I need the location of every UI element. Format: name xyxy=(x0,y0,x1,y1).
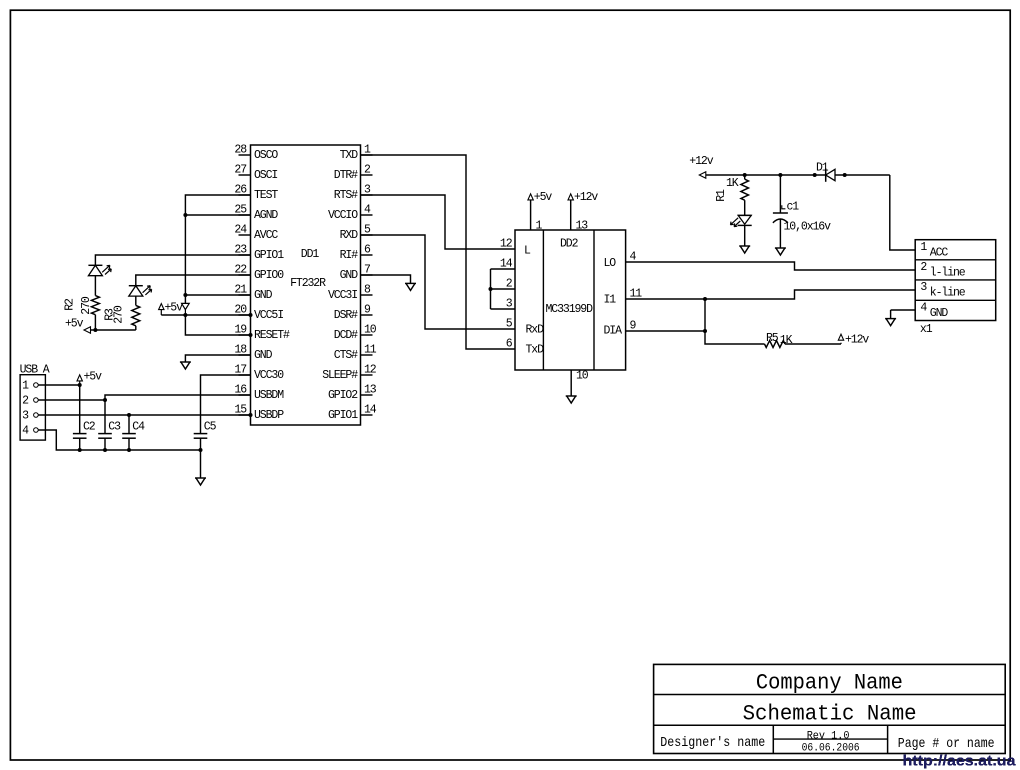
svg-text:DD1: DD1 xyxy=(301,248,320,261)
svg-text:GPIO1: GPIO1 xyxy=(254,249,284,262)
svg-text:13: 13 xyxy=(364,384,377,397)
svg-text:TEST: TEST xyxy=(254,189,278,202)
svg-text:RTS#: RTS# xyxy=(334,189,358,202)
svg-text:+5v: +5v xyxy=(65,317,84,330)
svg-text:10,0x16v: 10,0x16v xyxy=(784,221,832,234)
svg-text:GND: GND xyxy=(340,269,359,282)
svg-text:13: 13 xyxy=(576,220,589,233)
svg-text:12: 12 xyxy=(364,364,377,377)
svg-text:AVCC: AVCC xyxy=(254,229,278,242)
svg-text:c1: c1 xyxy=(787,201,800,214)
svg-text:Designer's name: Designer's name xyxy=(660,735,765,751)
svg-text:RxD: RxD xyxy=(526,323,545,336)
svg-text:x1: x1 xyxy=(920,323,933,336)
svg-text:10: 10 xyxy=(364,324,377,337)
svg-text:27: 27 xyxy=(234,164,246,177)
svg-text:VCC5I: VCC5I xyxy=(254,309,283,322)
svg-text:VCC30: VCC30 xyxy=(254,369,284,382)
svg-text:AGND: AGND xyxy=(254,209,278,222)
svg-text:R5: R5 xyxy=(766,332,779,345)
svg-text:DTR#: DTR# xyxy=(334,169,358,182)
svg-text:FT232R: FT232R xyxy=(290,277,326,290)
svg-text:+5v: +5v xyxy=(84,371,103,384)
svg-text:Company Name: Company Name xyxy=(756,670,903,696)
svg-text:USB A: USB A xyxy=(20,363,50,376)
svg-text:GPIO2: GPIO2 xyxy=(328,389,358,402)
svg-text:R1: R1 xyxy=(715,189,728,202)
svg-text:C4: C4 xyxy=(132,421,145,434)
svg-text:+12v: +12v xyxy=(574,191,598,204)
svg-text:270: 270 xyxy=(80,296,93,315)
svg-text:RI#: RI# xyxy=(340,249,359,262)
svg-text:+5v: +5v xyxy=(165,302,184,315)
svg-text:VCC3I: VCC3I xyxy=(328,289,357,302)
svg-text:TXD: TXD xyxy=(340,149,359,162)
svg-text:C3: C3 xyxy=(108,421,121,434)
svg-text:DIA: DIA xyxy=(604,325,623,338)
svg-text:USBDM: USBDM xyxy=(254,389,284,402)
svg-text:06.06.2006: 06.06.2006 xyxy=(802,742,860,754)
svg-text:GND: GND xyxy=(254,289,273,302)
svg-text:Page # or name: Page # or name xyxy=(898,736,995,752)
svg-text:12: 12 xyxy=(500,238,513,251)
svg-text:MC33199D: MC33199D xyxy=(545,303,593,316)
svg-text:l-line: l-line xyxy=(930,266,966,279)
svg-text:10: 10 xyxy=(576,370,589,383)
svg-text:11: 11 xyxy=(364,344,377,357)
svg-text:C5: C5 xyxy=(204,421,217,434)
svg-text:DD2: DD2 xyxy=(560,237,579,250)
svg-text:GND: GND xyxy=(930,307,949,320)
svg-text:Schematic Name: Schematic Name xyxy=(743,701,917,727)
svg-text:Rev 1.0: Rev 1.0 xyxy=(807,730,850,742)
svg-text:DCD#: DCD# xyxy=(334,329,358,342)
svg-text:k-line: k-line xyxy=(930,287,966,300)
svg-text:SLEEP#: SLEEP# xyxy=(322,369,358,382)
svg-text:1K: 1K xyxy=(780,334,793,347)
svg-text:24: 24 xyxy=(234,224,247,237)
svg-text:DSR#: DSR# xyxy=(334,309,358,322)
svg-text:GPIO0: GPIO0 xyxy=(254,269,284,282)
svg-text:LO: LO xyxy=(604,257,617,270)
svg-text:GND: GND xyxy=(254,349,273,362)
svg-text:http://aes.at.ua: http://aes.at.ua xyxy=(903,753,1017,770)
svg-text:TxD: TxD xyxy=(526,343,545,356)
svg-text:28: 28 xyxy=(234,144,247,157)
svg-text:ACC: ACC xyxy=(930,246,949,259)
svg-text:RXD: RXD xyxy=(340,229,359,242)
svg-text:+12v: +12v xyxy=(689,155,713,168)
svg-text:270: 270 xyxy=(113,305,126,324)
svg-text:+5v: +5v xyxy=(534,191,553,204)
svg-text:C2: C2 xyxy=(83,421,96,434)
svg-text:VCCIO: VCCIO xyxy=(328,209,358,222)
svg-text:1K: 1K xyxy=(726,177,739,190)
svg-text:14: 14 xyxy=(364,404,377,417)
svg-text:GPIO1: GPIO1 xyxy=(328,409,358,422)
svg-text:+12v: +12v xyxy=(845,334,869,347)
svg-text:D1: D1 xyxy=(816,161,829,174)
svg-text:CTS#: CTS# xyxy=(334,349,358,362)
svg-text:RESET#: RESET# xyxy=(254,329,290,342)
svg-text:I1: I1 xyxy=(604,294,617,307)
svg-text:R2: R2 xyxy=(64,298,77,311)
svg-text:OSCI: OSCI xyxy=(254,169,277,182)
svg-text:OSCO: OSCO xyxy=(254,149,278,162)
svg-text:USBDP: USBDP xyxy=(254,409,284,422)
